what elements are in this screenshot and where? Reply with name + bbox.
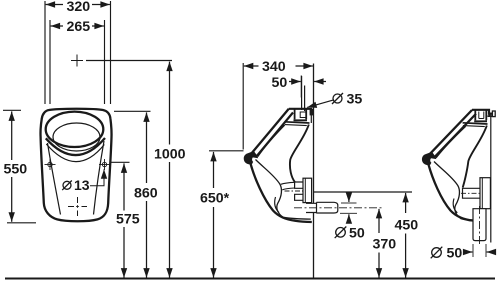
svg-text:450: 450 — [395, 218, 419, 234]
svg-text:370: 370 — [373, 237, 397, 253]
svg-text:860: 860 — [134, 186, 158, 202]
svg-text:50: 50 — [349, 226, 365, 242]
svg-text:1000: 1000 — [154, 147, 186, 163]
svg-text:575: 575 — [116, 212, 140, 228]
svg-text:265: 265 — [67, 19, 91, 35]
svg-text:320: 320 — [67, 0, 91, 15]
svg-text:550: 550 — [4, 162, 28, 178]
svg-text:340: 340 — [262, 59, 286, 75]
svg-text:35: 35 — [347, 92, 363, 108]
svg-text:650*: 650* — [200, 191, 230, 207]
svg-text:50: 50 — [272, 75, 288, 91]
svg-text:50: 50 — [447, 246, 463, 262]
svg-text:13: 13 — [74, 177, 90, 193]
